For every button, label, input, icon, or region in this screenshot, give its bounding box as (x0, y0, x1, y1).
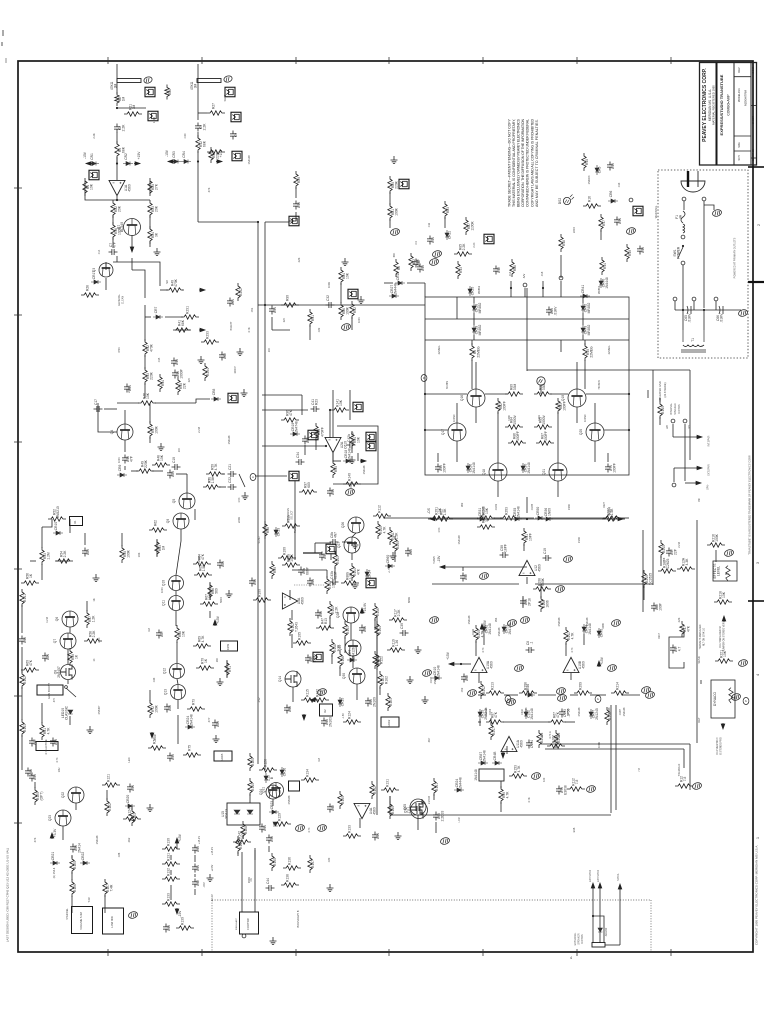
resistor R (207, 150, 225, 154)
transistor Q12 (170, 664, 185, 679)
chassis ground (295, 824, 306, 833)
wire (105, 278, 107, 290)
svg-text:R23: R23 (314, 399, 318, 405)
diode CR1 (89, 153, 99, 165)
resistor R227 (602, 508, 620, 521)
svg-text:C21: C21 (228, 464, 232, 470)
svg-text:2N5457: 2N5457 (57, 666, 61, 678)
chassis ground (586, 785, 597, 794)
svg-text:CLASSIC: CLASSIC (64, 705, 68, 720)
ground (87, 726, 94, 734)
svg-text:TRANSLTS REPLACED: TRANSLTS REPLACED (699, 624, 702, 649)
svg-text:R123: R123 (389, 698, 393, 706)
svg-text:R100: R100 (258, 589, 262, 597)
ground (154, 248, 161, 256)
chassis ground (317, 688, 328, 697)
svg-text:100PF: 100PF (503, 401, 507, 411)
svg-text:R143: R143 (23, 724, 27, 732)
resistor R232 (236, 283, 243, 301)
wire (329, 410, 331, 438)
svg-text:C32: C32 (326, 295, 330, 301)
diode CR42 (581, 303, 591, 314)
svg-text:C42: C42 (331, 805, 335, 811)
node J17 (523, 283, 527, 287)
wire (21, 735, 23, 770)
diode CR4B (492, 751, 502, 765)
svg-text:“TRANSTUBE” IS A REGISTERED TR: “TRANSTUBE” IS A REGISTERED TRADEMARK OF… (748, 455, 752, 556)
wire (425, 393, 467, 395)
resistor R62 (149, 520, 167, 532)
svg-text:C40: C40 (196, 846, 200, 852)
wire (682, 265, 684, 310)
svg-text:K117 REPLACED W: K117 REPLACED W (719, 626, 722, 648)
svg-text:SHLD: SHLD (223, 94, 227, 101)
svg-text:MR852: MR852 (587, 325, 591, 336)
svg-text:1M: 1M (132, 104, 136, 109)
wire (682, 310, 684, 330)
resistor R66 (208, 582, 219, 600)
wire (197, 151, 199, 222)
resistor R17 (599, 214, 606, 232)
svg-text:100R: 100R (118, 226, 122, 235)
wire (56, 560, 70, 562)
svg-text:CR8: CR8 (212, 389, 216, 396)
svg-text:4.7K: 4.7K (571, 647, 574, 652)
wire (748, 600, 764, 602)
svg-text:100K: 100K (715, 533, 719, 542)
wire (424, 283, 426, 297)
LED DS2 (558, 195, 574, 205)
svg-text:R140: R140 (350, 481, 353, 488)
resistor R65 (194, 564, 212, 577)
wire (272, 799, 274, 806)
transformer T1 primary (681, 330, 706, 352)
chassis ground (507, 619, 518, 628)
resistor R61 (40, 722, 51, 740)
capacitor C33 (29, 773, 37, 782)
wire (131, 235, 133, 247)
diode CR8 (211, 389, 221, 401)
svg-text:R122: R122 (380, 656, 384, 664)
capacitor C37 (666, 548, 677, 557)
svg-text:C51: C51 (251, 307, 254, 312)
wire (344, 637, 346, 653)
wire (117, 107, 146, 109)
svg-text:1M: 1M (162, 545, 166, 550)
wire (670, 57, 672, 64)
chassis ground (317, 824, 328, 833)
op-amp U11A (501, 736, 523, 751)
svg-text:100K: 100K (118, 457, 121, 463)
svg-text:R140: R140 (251, 783, 255, 791)
jack J6 (289, 216, 299, 226)
chassis ground (479, 572, 490, 581)
wire (14, 695, 22, 697)
chassis ground (712, 209, 723, 218)
svg-text:R125: R125 (251, 758, 255, 766)
wire (268, 846, 270, 852)
ground (237, 348, 244, 356)
wire (557, 481, 559, 497)
capacitor C52 (461, 674, 469, 683)
resistor R28 (81, 285, 99, 297)
svg-text:100MF: 100MF (584, 414, 587, 422)
wire (258, 304, 262, 306)
wire (685, 482, 696, 484)
diode CR36 (543, 508, 553, 521)
svg-text:C32: C32 (464, 574, 468, 580)
svg-text:K1: K1 (73, 520, 77, 524)
wire (75, 803, 77, 810)
svg-text:+15.2V: +15.2V (211, 847, 214, 855)
wire (379, 687, 381, 695)
svg-text:STER.DEL: STER.DEL (67, 908, 69, 920)
wire (149, 403, 151, 410)
resistor R47 (148, 421, 159, 439)
svg-text:Q23: Q23 (48, 815, 52, 821)
capacitor C54 (372, 832, 380, 841)
svg-text:4.7K: 4.7K (56, 757, 59, 762)
svg-text:CR25: CR25 (471, 287, 475, 296)
wire (67, 680, 69, 684)
resistor R99 (499, 786, 510, 804)
chassis ground (341, 323, 352, 332)
wire (527, 369, 690, 371)
resistor R230 (393, 536, 400, 554)
svg-text:1N4148: 1N4148 (228, 435, 231, 444)
wire (67, 649, 69, 664)
svg-text:R136: R136 (288, 857, 292, 865)
svg-text:CR2: CR2 (124, 153, 128, 160)
resistor R13 (456, 261, 463, 279)
svg-text:COPYRIGHT LAWS AND ALL COPYING: COPYRIGHT LAWS AND ALL COPYING IS PROHIB… (530, 119, 534, 207)
svg-text:R124: R124 (128, 808, 132, 816)
svg-text:100PF: 100PF (442, 463, 446, 473)
svg-text:47K: 47K (33, 837, 37, 842)
transistor Q20 (586, 423, 604, 441)
diode C102 (524, 708, 534, 720)
chassis ground (514, 664, 525, 673)
power arrow (617, 517, 623, 521)
svg-text:.3P1B: .3P1B (567, 708, 570, 715)
svg-text:CR42: CR42 (472, 628, 475, 635)
wire (540, 584, 542, 598)
svg-text:+2.8V: +2.8V (211, 864, 214, 871)
transistor Q26 (348, 517, 364, 533)
svg-text:Q7: Q7 (53, 639, 57, 644)
wire (356, 684, 358, 700)
svg-text:CR41: CR41 (581, 285, 585, 294)
svg-text:1N4148: 1N4148 (498, 627, 501, 636)
svg-text:R132: R132 (167, 868, 171, 876)
resistor R209 (574, 682, 592, 695)
wire (175, 329, 190, 331)
svg-text:2.2K: 2.2K (92, 630, 96, 638)
svg-text:C46: C46 (23, 637, 27, 643)
svg-text:10K: 10K (160, 454, 164, 461)
power arrow -15V (175, 908, 182, 917)
resistor R84 (339, 267, 350, 285)
resistor R54 (55, 550, 73, 563)
wire (340, 283, 342, 303)
wire (526, 577, 528, 584)
wire (186, 474, 188, 493)
wire (652, 370, 654, 585)
svg-text:C19: C19 (172, 457, 176, 463)
wire (112, 237, 114, 248)
svg-text:SEND: SEND (697, 656, 701, 663)
svg-text:T.2643: T.2643 (295, 622, 299, 632)
wire (576, 57, 578, 64)
resistor R135 (270, 853, 277, 871)
capacitor C33 (302, 436, 310, 445)
wire (197, 64, 199, 120)
resistor R80 (388, 176, 399, 194)
node P (595, 696, 601, 703)
svg-text:68K: 68K (393, 252, 396, 257)
resistor R151 (432, 778, 439, 796)
wire (315, 439, 317, 450)
svg-text:TREMOLO: TREMOLO (678, 764, 681, 776)
wire (105, 262, 107, 270)
svg-text:R95: R95 (334, 466, 338, 472)
svg-text:4560: 4560 (581, 661, 585, 669)
wire (315, 542, 331, 544)
capacitor C20 (167, 470, 175, 479)
wire (615, 705, 617, 810)
transistor Q16 (467, 389, 485, 407)
wire (177, 700, 179, 709)
svg-text:CR7: CR7 (154, 307, 158, 314)
wire (357, 453, 359, 461)
jack J8 (348, 289, 358, 299)
wire (113, 262, 160, 286)
resistor R120 (373, 651, 384, 669)
capacitor C41 (311, 399, 320, 412)
svg-text:CR4B: CR4B (493, 751, 497, 761)
wire (462, 567, 464, 571)
resistor R231 (181, 306, 199, 319)
diode CR47 (589, 708, 599, 720)
diode CR22 (80, 852, 90, 865)
transistor Q17 (448, 423, 466, 441)
jack J17 (231, 112, 241, 122)
node (629, 198, 633, 202)
diode CR2 (123, 153, 133, 165)
svg-text:2N4348: 2N4348 (608, 707, 611, 716)
svg-text:1: 1 (755, 836, 760, 839)
resistor R120 (33, 787, 44, 805)
svg-text:47K: 47K (687, 625, 691, 632)
wire (104, 895, 106, 913)
svg-text:2.2D33: 2.2D33 (428, 795, 431, 804)
svg-text:+15V: +15V (446, 651, 450, 660)
wire (350, 623, 352, 640)
wire (479, 719, 481, 726)
junction (542, 287, 544, 289)
jack J1 input A (145, 87, 155, 97)
svg-text:2N4148: 2N4148 (189, 714, 193, 726)
svg-text:2N5457: 2N5457 (98, 705, 101, 714)
transistor Q3 (99, 263, 113, 277)
svg-text:-15V: -15V (178, 910, 182, 918)
wire (675, 309, 741, 311)
svg-text:2N163: 2N163 (328, 717, 332, 727)
wire (116, 132, 118, 144)
svg-text:C12: C12 (497, 267, 501, 273)
svg-text:2N414: 2N414 (77, 843, 81, 853)
svg-text:POWERED AT PRIMARY OUTLETS: POWERED AT PRIMARY OUTLETS (734, 237, 737, 278)
resistor R17 (680, 621, 691, 637)
node J1 (682, 197, 686, 201)
svg-text:10K: 10K (722, 591, 726, 598)
node (242, 934, 246, 938)
wire (262, 409, 308, 411)
resistor R86 (339, 302, 350, 320)
svg-text:2N5210: 2N5210 (56, 506, 60, 518)
resistor R126 (259, 759, 277, 772)
svg-text:2: 2 (756, 223, 761, 226)
wire (425, 429, 448, 431)
ground (349, 456, 356, 464)
capacitor C48 (25, 768, 33, 777)
svg-text:Q14: Q14 (278, 676, 282, 682)
wire (394, 552, 396, 562)
svg-text:(OPT): (OPT) (40, 792, 44, 801)
diode CR12 (395, 272, 405, 285)
wire (239, 474, 245, 487)
pot R159 (221, 641, 238, 651)
svg-text:1.2M: 1.2M (46, 617, 49, 623)
svg-text:20K: 20K (118, 205, 122, 212)
wire (209, 583, 211, 598)
wire (85, 194, 150, 200)
wire (546, 517, 605, 519)
svg-text:C52: C52 (461, 687, 464, 692)
wire (86, 601, 88, 611)
wire (693, 301, 695, 310)
svg-text:C60: C60 (409, 549, 413, 555)
chassis ground (520, 616, 531, 625)
capacitor C60 (546, 306, 557, 316)
wire (570, 673, 572, 680)
junction (116, 199, 118, 201)
wire (295, 212, 297, 221)
node J27 (683, 419, 687, 423)
svg-text:CR5: CR5 (598, 167, 602, 174)
svg-text:100PF: 100PF (544, 431, 548, 441)
svg-text:R75: R75 (188, 745, 192, 751)
pot VOLUME (72, 907, 93, 934)
resistor R125 (70, 856, 77, 874)
svg-text:1N4148: 1N4148 (247, 155, 251, 165)
svg-text:1K: 1K (93, 658, 96, 661)
wire (182, 289, 183, 291)
svg-text:4A: 4A (678, 214, 682, 219)
wire (160, 289, 168, 291)
chassis ground (429, 616, 440, 625)
chassis ground (128, 911, 139, 920)
op-amp U1A (109, 180, 131, 195)
svg-text:R8: R8 (397, 266, 401, 270)
svg-text:C58: C58 (288, 706, 292, 712)
wire (175, 611, 177, 626)
resistor R106 (338, 651, 345, 669)
svg-text:10K: 10K (438, 507, 442, 514)
svg-text:R209: R209 (579, 682, 583, 690)
resistor R84 (505, 414, 523, 429)
svg-text:C13: C13 (618, 182, 621, 187)
wire (194, 874, 196, 877)
diode CR28 (472, 303, 482, 314)
svg-text:R62: R62 (461, 502, 464, 507)
wire (689, 370, 691, 460)
svg-text:C62: C62 (223, 353, 227, 359)
svg-text:LOW MID: LOW MID (110, 916, 114, 928)
svg-text:R62: R62 (154, 520, 158, 526)
svg-text:470PF: 470PF (321, 427, 325, 437)
resistor R70 (196, 658, 214, 670)
junction (424, 429, 426, 431)
svg-text:R140: R140 (348, 473, 352, 481)
svg-text:18K: 18K (216, 657, 219, 662)
svg-text:1K: 1K (29, 573, 33, 578)
wire (522, 596, 524, 608)
wire (478, 694, 486, 696)
svg-text:R213: R213 (491, 682, 495, 690)
jack J16d (308, 430, 318, 440)
svg-text:2N2: 2N2 (257, 697, 261, 702)
svg-text:1N4749: 1N4749 (350, 432, 354, 444)
power arrow (310, 698, 316, 702)
wire (149, 181, 151, 194)
diode CR17 (91, 271, 101, 284)
switch SW1 (673, 246, 683, 259)
svg-text:CR17: CR17 (92, 271, 96, 280)
wire (219, 486, 226, 488)
svg-text:R122: R122 (108, 803, 112, 811)
resistor R8 (394, 259, 401, 277)
wire (295, 949, 297, 956)
svg-text:4.7K: 4.7K (506, 791, 510, 799)
diode CR25 (468, 286, 475, 296)
svg-text:C48: C48 (29, 769, 33, 775)
resistor R51b (282, 515, 300, 528)
wire (610, 705, 612, 813)
transistor Q19 (568, 389, 586, 407)
capacitor C12 (413, 259, 421, 268)
chassis ground (738, 659, 749, 668)
resistor R58 (84, 630, 102, 643)
power arrow (696, 466, 702, 470)
ground (422, 696, 429, 704)
svg-text:MODEL/NO.: MODEL/NO. (737, 87, 741, 102)
node +V (559, 276, 563, 280)
chassis ground (440, 837, 451, 846)
svg-text:C36: C36 (253, 579, 257, 585)
wire (294, 584, 325, 586)
svg-text:Q16: Q16 (460, 395, 464, 401)
resistor R125 (248, 753, 255, 771)
ground (147, 804, 154, 812)
svg-text:SHEET: SHEET (752, 115, 755, 124)
wire (69, 627, 71, 633)
wire (176, 473, 187, 475)
power section boundary (dashed) (658, 170, 748, 358)
svg-text:1000V: 1000V (513, 414, 517, 424)
diode CR35 (512, 506, 522, 521)
wire (116, 256, 118, 262)
